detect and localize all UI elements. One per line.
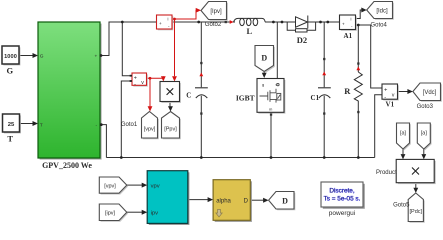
svg-text:R: R xyxy=(344,86,351,96)
svg-text:GPV_2500 We: GPV_2500 We xyxy=(42,161,92,170)
from tag a (second) xyxy=(417,123,431,150)
svg-text:[a]: [a] xyxy=(421,131,428,137)
red signal wire current sensor to Goto2 xyxy=(172,10,197,19)
wire MPPT output to alpha block xyxy=(188,199,208,201)
svg-text:v: v xyxy=(392,93,395,99)
wire From a2 to Product xyxy=(423,149,425,154)
svg-text:ipv: ipv xyxy=(151,210,159,216)
wire node to voltage measurement plus input xyxy=(122,22,132,76)
svg-text:alpha: alpha xyxy=(216,199,231,205)
wire from T constant to PV input xyxy=(20,123,33,125)
svg-text:powergui: powergui xyxy=(329,210,355,217)
MPPT controller block (teal) xyxy=(147,171,189,225)
svg-text:[a]: [a] xyxy=(400,131,407,137)
svg-text:Ts = 5e-05 s.: Ts = 5e-05 s. xyxy=(324,196,361,203)
wire V1 signal to Goto3 xyxy=(398,91,408,93)
goto tag D (after alpha) xyxy=(269,192,296,211)
wire IGBT collector from top node xyxy=(276,22,278,78)
ground rail wire xyxy=(106,157,374,159)
svg-text:T: T xyxy=(7,134,13,144)
svg-text:-: - xyxy=(134,81,136,87)
svg-text:Product: Product xyxy=(376,170,397,176)
goto Ipv (Goto2) xyxy=(201,2,228,21)
svg-text:[Ipv]: [Ipv] xyxy=(210,9,222,15)
svg-text:[Vdc]: [Vdc] xyxy=(423,90,437,96)
wire resistor R branch xyxy=(357,25,359,158)
svg-text:C: C xyxy=(186,92,191,100)
red signal wire voltage measurement to product X and Goto1 xyxy=(147,76,164,106)
goto Vdc (Goto3) xyxy=(413,83,442,102)
product block X (PV power) xyxy=(160,82,181,103)
svg-text:D2: D2 xyxy=(297,35,307,45)
goto Ppv xyxy=(162,112,181,140)
red signal wire current down to product X xyxy=(174,19,176,76)
svg-text:G: G xyxy=(6,66,13,76)
svg-text:D: D xyxy=(261,54,267,63)
wire Product output to Goto5 Pdc xyxy=(415,183,417,188)
diode D2 xyxy=(287,16,315,33)
capacitor C xyxy=(195,88,208,98)
from tag D above IGBT xyxy=(255,46,275,73)
branch port squares xyxy=(200,21,359,116)
voltage measurement block (red) xyxy=(132,73,148,87)
svg-text:+: + xyxy=(159,21,162,26)
svg-text:L: L xyxy=(246,26,252,36)
svg-text:D: D xyxy=(244,199,249,205)
wire IGBT emitter to ground rail xyxy=(270,113,272,158)
svg-text:V1: V1 xyxy=(386,101,395,109)
svg-text:v: v xyxy=(141,80,144,86)
current measurement block A1 xyxy=(340,15,357,31)
goto Pdc (Goto5) xyxy=(408,193,425,223)
svg-text:Discrete,: Discrete, xyxy=(329,188,354,195)
goto Idc (Goto4) xyxy=(367,2,394,20)
svg-text:[ipv]: [ipv] xyxy=(105,211,116,217)
wire A1 output to V1 plus input xyxy=(356,25,383,88)
svg-text:Goto1: Goto1 xyxy=(121,122,138,128)
wire alpha block to goto D xyxy=(250,199,263,201)
wire From vpv to MPPT input xyxy=(127,184,142,186)
svg-text:Goto5: Goto5 xyxy=(393,202,410,208)
svg-text:IGBT: IGBT xyxy=(236,93,255,102)
wire From a1 to Product xyxy=(402,149,404,154)
wire current sensor output to inductor xyxy=(172,21,235,23)
wire X product output to Ppv goto xyxy=(169,102,171,107)
PV array block GPV_2500 We xyxy=(38,22,102,160)
from tag vpv (bottom left) xyxy=(99,177,128,195)
svg-text:Goto4: Goto4 xyxy=(371,23,388,29)
svg-text:C1: C1 xyxy=(311,94,320,102)
constant block 1000 (G) xyxy=(2,46,20,65)
constant block 25 (T) xyxy=(3,114,21,133)
wire V1 minus input to ground rail xyxy=(375,95,382,158)
svg-text:[Ppv]: [Ppv] xyxy=(164,127,177,133)
wire capacitor C branch from top node xyxy=(199,22,202,158)
svg-text:T: T xyxy=(40,122,43,128)
resistor R xyxy=(354,72,362,103)
red junction dots xyxy=(149,18,176,80)
svg-text:+: + xyxy=(95,55,98,60)
svg-text:vpv: vpv xyxy=(151,183,160,189)
junction node dots xyxy=(100,21,360,159)
svg-text:[vpv]: [vpv] xyxy=(104,184,116,190)
svg-text:+: + xyxy=(342,21,345,26)
svg-text:D: D xyxy=(282,197,288,206)
svg-text:[vpv]: [vpv] xyxy=(144,127,156,133)
svg-text:25: 25 xyxy=(8,122,15,128)
wire capacitor C1 branch xyxy=(323,22,325,158)
wire inductor to diode xyxy=(265,21,296,23)
wire From D down to IGBT gate xyxy=(263,72,265,74)
svg-text:[Pdc]: [Pdc] xyxy=(410,209,423,215)
voltage measurement block V1 xyxy=(382,84,399,101)
from tag a (first) xyxy=(397,123,411,150)
svg-text:G: G xyxy=(40,53,44,59)
current measurement sensor (red) xyxy=(157,15,174,30)
wire diode to A1 xyxy=(308,21,340,23)
goto vpv (Goto1) xyxy=(142,112,159,140)
capacitor C1 xyxy=(318,88,331,98)
powergui block xyxy=(321,182,365,209)
red sample-time ticks xyxy=(199,20,360,76)
wire PV minus output down to ground rail xyxy=(100,125,106,158)
wire PV plus output to top rail and current sensor xyxy=(100,22,157,56)
svg-text:i: i xyxy=(168,17,169,22)
svg-text:g: g xyxy=(262,82,264,87)
wire From ipv to MPPT input xyxy=(127,211,142,213)
wire A1 measurement signal to Goto4 xyxy=(356,10,362,19)
product block (bottom right) xyxy=(396,159,436,184)
svg-text:Goto3: Goto3 xyxy=(417,104,434,110)
from tag ipv (bottom left) xyxy=(99,204,128,222)
wire from G constant to PV input xyxy=(20,55,33,57)
voltage measurement input port marks xyxy=(130,75,132,82)
wire voltage measurement minus input to ground rail xyxy=(121,81,132,158)
svg-text:i: i xyxy=(351,17,352,22)
svg-text:1000: 1000 xyxy=(4,54,17,60)
svg-text:A1: A1 xyxy=(344,32,353,40)
svg-text:[Idc]: [Idc] xyxy=(376,8,388,14)
IGBT block xyxy=(257,79,285,114)
alpha duty-cycle block (yellow) xyxy=(213,180,252,222)
inductor L xyxy=(226,18,266,25)
svg-text:Goto2: Goto2 xyxy=(205,22,222,28)
